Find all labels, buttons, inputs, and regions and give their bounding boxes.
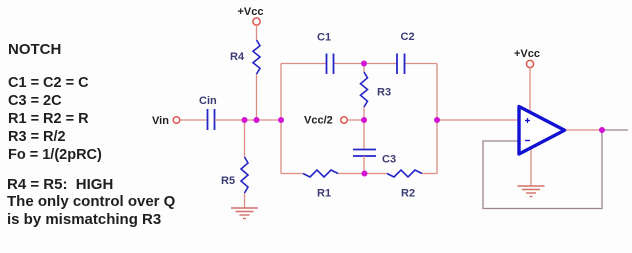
annotation: note about Q: [7, 176, 176, 228]
svg-text:C1: C1: [317, 32, 331, 44]
resistor R2: [387, 170, 422, 200]
svg-text:Cin: Cin: [199, 95, 217, 107]
capacitor C3: [353, 150, 396, 166]
svg-text:R4: R4: [230, 51, 245, 63]
ground below R5: [231, 208, 258, 219]
svg-text:Vin: Vin: [152, 115, 169, 127]
wire +Vcc to R4: [256, 25, 258, 40]
node junction op-amp output: [599, 127, 605, 133]
op-amp U1: [519, 107, 565, 155]
node junction twin-T input: [278, 117, 284, 123]
wire twin-T right edge: [436, 64, 438, 174]
wire top node to R3: [363, 64, 365, 73]
wire +Vcc to op-amp: [529, 68, 531, 114]
wire op-amp to ground: [530, 147, 532, 186]
+Vcc terminal above op-amp: [514, 48, 540, 68]
svg-text:is by mismatching R3: is by mismatching R3: [7, 211, 161, 228]
wire Cin to twin-T input rail: [215, 119, 282, 121]
resistor R4: [230, 40, 260, 74]
node junction C1-C2-R3: [361, 61, 367, 67]
resistor R1: [303, 170, 338, 200]
svg-text:Vcc/2: Vcc/2: [304, 115, 333, 127]
wire twin-T output to op-amp non-inverting input: [437, 119, 519, 121]
node junction R1-R2-C3: [362, 171, 368, 177]
svg-text:NOTCH: NOTCH: [8, 41, 61, 58]
svg-text:R4 = R5: HIGH: R4 = R5: HIGH: [7, 176, 113, 193]
wire twin-T left edge: [280, 64, 282, 174]
node junction R4 tap: [254, 117, 260, 123]
wire Vin to Cin: [180, 119, 207, 121]
svg-text:C2: C2: [401, 31, 415, 43]
node junction R5 tap: [242, 117, 248, 123]
wire twin-T bottom rail: [281, 173, 437, 175]
svg-text:The only control over Q: The only control over Q: [7, 193, 176, 210]
svg-text:R1: R1: [317, 188, 331, 200]
wire op-amp output: [564, 129, 602, 131]
svg-text:R3 = R/2: R3 = R/2: [8, 129, 66, 145]
wire R3 to center node: [363, 107, 365, 120]
wire output to right edge: [602, 129, 628, 131]
svg-text:R2: R2: [401, 188, 415, 200]
wire Vcc/2 to center node: [348, 119, 365, 121]
svg-text:+Vcc: +Vcc: [514, 48, 540, 60]
wire C3 to bottom rail: [363, 156, 365, 174]
annotation: design equations: [8, 75, 102, 163]
wire center node to C3: [363, 120, 365, 149]
svg-text:R1 = R2 = R: R1 = R2 = R: [8, 111, 89, 127]
wire R4 to rail: [256, 74, 258, 120]
wire feedback loop from inverting input to output node: [483, 130, 602, 209]
wire R5 to ground: [244, 193, 246, 208]
svg-text:C3 = 2C: C3 = 2C: [8, 93, 62, 109]
wire rail to R5: [244, 120, 246, 157]
+Vcc terminal above R4: [238, 6, 264, 25]
svg-text:C3: C3: [382, 154, 396, 166]
resistor R3: [361, 72, 392, 107]
resistor R5: [221, 157, 248, 193]
Vin terminal: [152, 115, 180, 127]
wire twin-T top rail: [281, 63, 437, 65]
svg-text:R3: R3: [377, 87, 391, 99]
svg-text:Fo = 1/(2pRC): Fo = 1/(2pRC): [8, 147, 102, 163]
capacitor C2: [397, 31, 415, 74]
svg-text:+Vcc: +Vcc: [238, 6, 264, 18]
node junction R3-C3-Vcc/2: [361, 117, 367, 123]
ground below op-amp: [518, 186, 545, 197]
node junction twin-T output: [434, 117, 440, 123]
Vcc/2 terminal: [304, 115, 347, 127]
svg-text:R5: R5: [221, 175, 235, 187]
capacitor Cin: [199, 95, 217, 130]
capacitor C1: [317, 32, 334, 75]
svg-text:C1 = C2 = C: C1 = C2 = C: [8, 75, 89, 91]
